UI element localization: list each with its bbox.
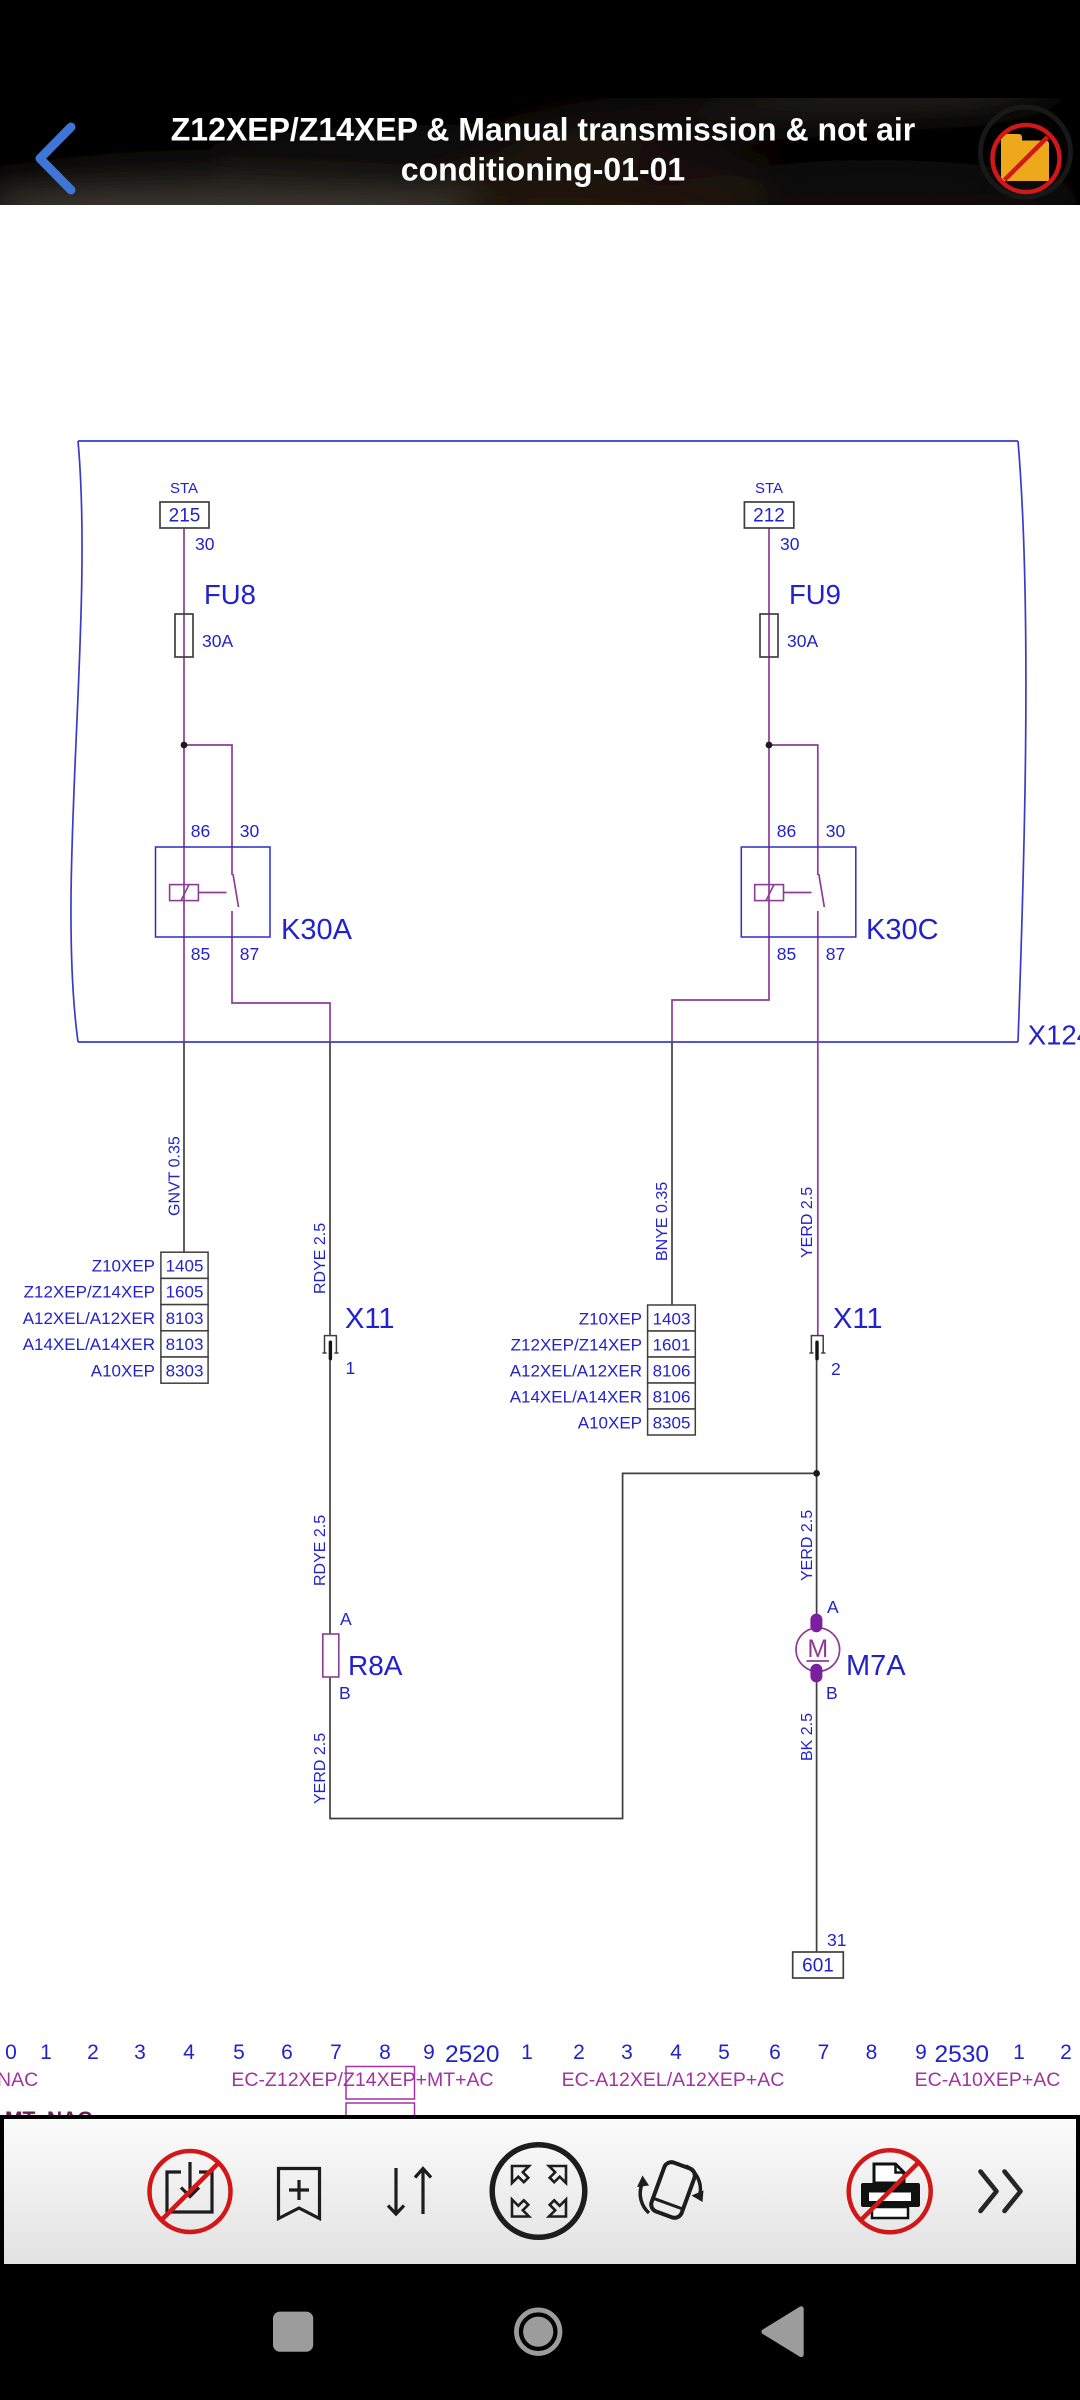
svg-text:30: 30 xyxy=(780,534,800,554)
svg-text:5: 5 xyxy=(718,2041,730,2064)
svg-text:R8A: R8A xyxy=(348,1650,403,1681)
svg-text:1601: 1601 xyxy=(653,1336,691,1355)
svg-text:2520: 2520 xyxy=(445,2041,500,2068)
svg-text:30: 30 xyxy=(195,534,215,554)
svg-text:A14XEL/A14XER: A14XEL/A14XER xyxy=(510,1388,642,1407)
svg-text:X11: X11 xyxy=(833,1303,882,1335)
svg-text:6: 6 xyxy=(769,2041,781,2064)
svg-text:0: 0 xyxy=(5,2041,17,2064)
svg-text:B: B xyxy=(339,1683,351,1703)
svg-text:31: 31 xyxy=(827,1930,846,1950)
svg-text:86: 86 xyxy=(777,821,796,841)
svg-text:2: 2 xyxy=(87,2041,99,2064)
svg-text:215: 215 xyxy=(169,506,201,527)
svg-text:9: 9 xyxy=(423,2041,435,2064)
svg-text:4: 4 xyxy=(670,2041,682,2064)
svg-text:8106: 8106 xyxy=(653,1362,691,1381)
svg-text:B: B xyxy=(826,1683,838,1703)
svg-text:87: 87 xyxy=(240,944,259,964)
svg-text:2: 2 xyxy=(573,2041,585,2064)
svg-text:3: 3 xyxy=(621,2041,633,2064)
svg-text:1403: 1403 xyxy=(653,1310,691,1329)
svg-text:STA: STA xyxy=(170,480,198,497)
svg-text:EC-Z12XEP/Z14XEP+MT+AC: EC-Z12XEP/Z14XEP+MT+AC xyxy=(231,2069,493,2091)
svg-text:EC-A10XEP+AC: EC-A10XEP+AC xyxy=(915,2069,1061,2091)
svg-text:YERD 2.5: YERD 2.5 xyxy=(312,1733,329,1804)
svg-text:1605: 1605 xyxy=(166,1283,204,1302)
svg-text:7: 7 xyxy=(330,2041,342,2064)
svg-text:RDYE 2.5: RDYE 2.5 xyxy=(312,1515,329,1586)
svg-text:BNYE 0.35: BNYE 0.35 xyxy=(654,1182,671,1261)
svg-text:Z12XEP/Z14XEP & Manual transmi: Z12XEP/Z14XEP & Manual transmission & no… xyxy=(171,112,916,148)
svg-text:A12XEL/A12XER: A12XEL/A12XER xyxy=(510,1362,642,1381)
svg-text:2530: 2530 xyxy=(934,2041,989,2068)
svg-text:X11: X11 xyxy=(345,1303,394,1335)
svg-text:1: 1 xyxy=(40,2041,52,2064)
svg-text:FU9: FU9 xyxy=(789,579,841,610)
svg-text:4: 4 xyxy=(183,2041,195,2064)
svg-text:EC-A12XEL/A12XEP+AC: EC-A12XEL/A12XEP+AC xyxy=(562,2069,785,2091)
svg-text:601: 601 xyxy=(802,1956,834,1977)
svg-text:Z12XEP/Z14XEP: Z12XEP/Z14XEP xyxy=(24,1283,155,1302)
svg-text:Z12XEP/Z14XEP: Z12XEP/Z14XEP xyxy=(511,1336,642,1355)
svg-text:85: 85 xyxy=(777,944,796,964)
svg-text:A: A xyxy=(340,1609,352,1629)
svg-text:conditioning-01-01: conditioning-01-01 xyxy=(401,152,685,188)
svg-text:STA: STA xyxy=(755,480,783,497)
svg-text:2: 2 xyxy=(1060,2041,1072,2064)
svg-text:6: 6 xyxy=(281,2041,293,2064)
svg-text:3: 3 xyxy=(134,2041,146,2064)
svg-text:9: 9 xyxy=(915,2041,927,2064)
svg-text:A14XEL/A14XER: A14XEL/A14XER xyxy=(23,1335,155,1354)
svg-text:30: 30 xyxy=(240,821,260,841)
svg-text:87: 87 xyxy=(826,944,845,964)
svg-text:K30A: K30A xyxy=(281,914,353,946)
svg-text:86: 86 xyxy=(191,821,210,841)
svg-text:30: 30 xyxy=(826,821,846,841)
svg-text:YERD 2.5: YERD 2.5 xyxy=(799,1187,816,1258)
svg-text:1405: 1405 xyxy=(166,1257,204,1276)
svg-text:1: 1 xyxy=(521,2041,533,2064)
svg-text:1: 1 xyxy=(346,1358,356,1378)
svg-text:212: 212 xyxy=(753,506,785,527)
svg-text:8103: 8103 xyxy=(166,1309,204,1328)
svg-text:A12XEL/A12XER: A12XEL/A12XER xyxy=(23,1309,155,1328)
svg-text:2: 2 xyxy=(831,1359,841,1379)
svg-text:7: 7 xyxy=(818,2041,830,2064)
svg-text:NAC: NAC xyxy=(0,2069,38,2091)
svg-text:K30C: K30C xyxy=(866,914,939,946)
svg-text:5: 5 xyxy=(233,2041,245,2064)
svg-text:85: 85 xyxy=(191,944,210,964)
svg-text:8106: 8106 xyxy=(653,1388,691,1407)
svg-text:8305: 8305 xyxy=(653,1414,691,1433)
svg-text:A10XEP: A10XEP xyxy=(578,1414,642,1433)
svg-text:1: 1 xyxy=(1013,2041,1025,2064)
svg-text:30A: 30A xyxy=(202,631,233,651)
svg-text:8: 8 xyxy=(866,2041,878,2064)
svg-text:M: M xyxy=(807,1635,828,1663)
svg-text:8303: 8303 xyxy=(166,1361,204,1380)
svg-text:A: A xyxy=(827,1597,839,1617)
svg-text:Z10XEP: Z10XEP xyxy=(579,1310,642,1329)
svg-text:X124: X124 xyxy=(1028,1020,1080,1051)
svg-text:YERD 2.5: YERD 2.5 xyxy=(799,1510,816,1581)
svg-text:Z10XEP: Z10XEP xyxy=(92,1257,155,1276)
svg-text:M7A: M7A xyxy=(846,1650,906,1682)
svg-text:BK 2.5: BK 2.5 xyxy=(799,1713,816,1761)
svg-text:8103: 8103 xyxy=(166,1335,204,1354)
svg-text:8: 8 xyxy=(379,2041,391,2064)
svg-text:FU8: FU8 xyxy=(204,579,256,610)
svg-text:RDYE 2.5: RDYE 2.5 xyxy=(312,1223,329,1294)
svg-text:GNVT 0.35: GNVT 0.35 xyxy=(167,1136,184,1216)
svg-text:30A: 30A xyxy=(787,631,818,651)
svg-text:A10XEP: A10XEP xyxy=(91,1361,155,1380)
